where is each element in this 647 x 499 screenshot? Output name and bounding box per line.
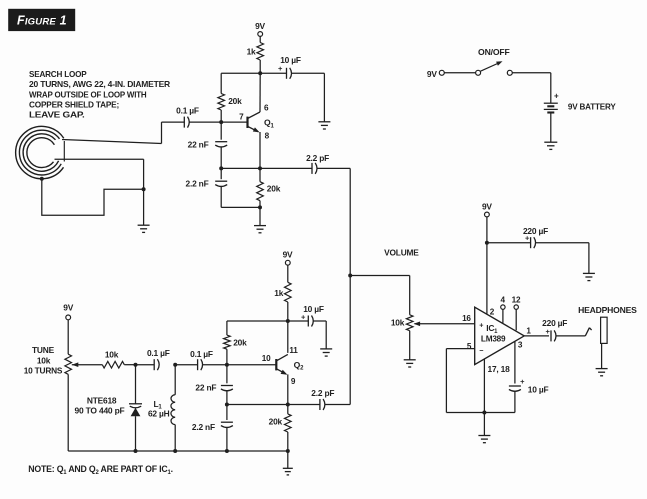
ground osc2 bbox=[283, 468, 293, 475]
svg-text:6: 6 bbox=[264, 104, 269, 113]
svg-text:VOLUME: VOLUME bbox=[384, 248, 419, 258]
svg-text:11: 11 bbox=[289, 346, 298, 355]
wire to ground osc1 bbox=[259, 207, 261, 225]
svg-text:9V: 9V bbox=[482, 201, 492, 211]
pin 12 terminal bbox=[512, 295, 521, 330]
wire shield junction up bbox=[143, 159, 145, 189]
capacitor 10uF osc1 bbox=[278, 55, 301, 79]
search loop coil L (winding rings) bbox=[16, 126, 65, 178]
wire shield junction down bbox=[143, 189, 145, 225]
capacitor 0.1uF second osc2 bbox=[190, 349, 213, 370]
capacitor 22nF osc1 bbox=[188, 122, 228, 168]
resistor 20k base osc1 bbox=[218, 73, 242, 122]
headphone element bbox=[578, 305, 637, 344]
ground 10uF osc2 bbox=[320, 349, 332, 356]
wire 9V to pin2 bbox=[486, 243, 488, 315]
wire pin16 input bbox=[415, 314, 475, 324]
resistor 20k base osc2 bbox=[224, 335, 248, 365]
potentiometer 10k volume bbox=[391, 315, 420, 360]
node lower row left osc1 bbox=[219, 166, 223, 170]
wire 20k feedback top osc2 bbox=[227, 321, 288, 335]
svg-text:+: + bbox=[554, 92, 559, 101]
svg-text:16: 16 bbox=[462, 314, 471, 323]
svg-text:17, 18: 17, 18 bbox=[488, 364, 511, 374]
svg-text:9: 9 bbox=[291, 377, 296, 386]
svg-text:LEAVE GAP.: LEAVE GAP. bbox=[29, 110, 85, 120]
svg-text:9V BATTERY: 9V BATTERY bbox=[568, 101, 616, 111]
wire 10uF to ground osc1 bbox=[291, 73, 324, 122]
svg-text:5: 5 bbox=[467, 342, 472, 351]
resistor 10k tune bbox=[102, 349, 135, 368]
resistor 20k emitter osc2 bbox=[269, 405, 291, 452]
svg-text:0.1 µF: 0.1 µF bbox=[147, 348, 170, 358]
node rail L1 bbox=[173, 449, 177, 453]
svg-text:2.2 nF: 2.2 nF bbox=[192, 422, 215, 432]
label VOLUME bbox=[384, 248, 419, 258]
svg-text:20k: 20k bbox=[228, 96, 242, 106]
node feedback ground junction bbox=[482, 411, 486, 415]
svg-text:2.2 pF: 2.2 pF bbox=[306, 153, 329, 163]
svg-text:3: 3 bbox=[518, 341, 523, 350]
search loop annotation text bbox=[29, 69, 170, 120]
wire Q1 collector bbox=[259, 73, 261, 112]
svg-text:HEADPHONES: HEADPHONES bbox=[578, 305, 637, 315]
node amp supply junction bbox=[485, 241, 489, 245]
wire bottom rail osc1 bbox=[221, 206, 260, 208]
svg-text:10k: 10k bbox=[391, 318, 405, 328]
wire pins 17 18 bbox=[484, 359, 510, 413]
wire Q2 collector bbox=[287, 321, 289, 353]
wire pin5 feedback loop bbox=[446, 349, 515, 413]
svg-text:9V: 9V bbox=[255, 21, 265, 31]
svg-text:20k: 20k bbox=[267, 184, 281, 194]
pin 4 terminal bbox=[501, 296, 506, 323]
wire battery to ground bbox=[550, 113, 552, 143]
node collector rail junction osc1 bbox=[258, 71, 262, 75]
svg-text:0.1 µF: 0.1 µF bbox=[190, 349, 213, 359]
node volume junction bbox=[348, 274, 352, 278]
wire varactor node bbox=[136, 364, 155, 366]
wire loop ground return bbox=[42, 179, 144, 216]
wire bottom rail osc2 bbox=[68, 450, 288, 452]
wire amp ground bbox=[483, 413, 485, 436]
wire base row osc2 bbox=[202, 364, 276, 366]
inductor L1 62uH bbox=[148, 365, 175, 451]
svg-text:TUNE: TUNE bbox=[32, 345, 55, 355]
wire lower row osc1 bbox=[221, 167, 312, 169]
resistor 1k osc1 bbox=[247, 43, 264, 74]
svg-text:9V: 9V bbox=[283, 250, 293, 260]
node L1 junction bbox=[173, 363, 177, 367]
resistor 1k osc2 bbox=[274, 282, 291, 321]
svg-text:4: 4 bbox=[501, 296, 506, 305]
terminal 9V supply osc1 bbox=[255, 21, 265, 43]
svg-text:FIGURE 1: FIGURE 1 bbox=[17, 14, 67, 28]
node collector junction osc2 bbox=[286, 319, 290, 323]
wire Q1 emitter bbox=[259, 132, 261, 168]
node emitter junction osc2 bbox=[286, 403, 290, 407]
svg-text:9V: 9V bbox=[427, 69, 437, 79]
wire switch to battery bbox=[512, 73, 551, 104]
svg-text:10 µF: 10 µF bbox=[303, 304, 324, 314]
wire pin5 input bbox=[446, 342, 474, 351]
varactor diode NTE618 bbox=[75, 365, 143, 451]
svg-text:LM389: LM389 bbox=[481, 334, 506, 343]
svg-text:10: 10 bbox=[262, 354, 271, 363]
terminal 9V switch bbox=[427, 69, 444, 79]
svg-text:20k: 20k bbox=[233, 338, 247, 348]
capacitor 0.1uF first osc2 bbox=[147, 348, 170, 370]
wire collector rail osc1 bbox=[221, 72, 286, 74]
svg-text:10 µF: 10 µF bbox=[528, 385, 549, 395]
node base junction osc2 bbox=[225, 363, 229, 367]
capacitor 2.2pF osc2 bbox=[288, 388, 350, 410]
figure label box bbox=[8, 9, 75, 31]
wire rail to ground osc2 bbox=[287, 451, 289, 468]
capacitor 0.1uF osc1 bbox=[176, 105, 199, 127]
node bottom rail osc1 bbox=[258, 205, 262, 209]
node varactor junction bbox=[134, 363, 138, 367]
svg-text:10k: 10k bbox=[105, 349, 119, 359]
capacitor 22nF osc2 bbox=[195, 365, 232, 405]
wire headphone to ground bbox=[601, 343, 603, 368]
svg-text:−: − bbox=[479, 346, 483, 355]
svg-text:+: + bbox=[479, 321, 483, 330]
wire 2.2pF to volume line bbox=[317, 167, 351, 169]
svg-text:20 TURNS, AWG 22, 4-IN. DIAMET: 20 TURNS, AWG 22, 4-IN. DIAMETER bbox=[29, 79, 170, 89]
svg-text:WRAP OUTSIDE OF LOOP WITH: WRAP OUTSIDE OF LOOP WITH bbox=[29, 89, 147, 99]
capacitor 220uF output bbox=[542, 318, 567, 342]
ground osc1 right bbox=[318, 122, 330, 129]
jack plug tip bbox=[585, 328, 591, 336]
svg-text:7: 7 bbox=[239, 113, 244, 122]
capacitor 220uF supply bbox=[487, 226, 589, 274]
potentiometer TUNE 10k bbox=[24, 302, 74, 451]
capacitor 10uF pin3 bbox=[509, 377, 549, 412]
node emitter row left osc2 bbox=[225, 403, 229, 407]
svg-text:1k: 1k bbox=[274, 288, 283, 298]
svg-text:2.2 nF: 2.2 nF bbox=[185, 178, 208, 188]
wire Q2 emitter bbox=[287, 374, 289, 404]
node lower row emitter osc1 bbox=[258, 166, 262, 170]
wire between caps osc2 bbox=[175, 364, 197, 366]
svg-text:12: 12 bbox=[512, 295, 521, 304]
wire base osc1 bbox=[189, 121, 248, 123]
svg-text:20k: 20k bbox=[269, 416, 283, 426]
resistor 20k emitter osc1 bbox=[257, 168, 281, 207]
wire emitter row osc2 bbox=[227, 404, 288, 406]
svg-text:ON/OFF: ON/OFF bbox=[478, 47, 510, 57]
node base junction osc1 bbox=[219, 120, 223, 124]
terminal 9V amp bbox=[482, 201, 492, 242]
wire loop upper lead to 0.1uF bbox=[62, 122, 184, 143]
capacitor 2.2nF osc1 bbox=[185, 168, 227, 207]
capacitor 2.2pF osc1 bbox=[306, 153, 329, 174]
svg-text:0.1 µF: 0.1 µF bbox=[176, 105, 199, 115]
svg-text:COPPER SHIELD TAPE;: COPPER SHIELD TAPE; bbox=[29, 99, 119, 109]
node rail 2.2nF bbox=[225, 449, 229, 453]
svg-text:10k: 10k bbox=[37, 355, 51, 365]
ground battery bbox=[544, 142, 557, 149]
wire volume tap bbox=[350, 276, 410, 315]
svg-text:10 TURNS: 10 TURNS bbox=[24, 365, 63, 375]
wire loop lower lead bbox=[55, 158, 144, 160]
battery 9V bbox=[544, 92, 616, 113]
node loop bottom terminal bbox=[40, 177, 44, 181]
note text bbox=[28, 464, 173, 476]
node rail varactor bbox=[134, 449, 138, 453]
ground osc1 bottom bbox=[254, 226, 266, 233]
svg-text:1: 1 bbox=[526, 326, 531, 335]
node rail emitter bbox=[286, 449, 290, 453]
capacitor 10uF osc2 bbox=[288, 304, 326, 349]
wire switch left bbox=[444, 72, 475, 74]
ground volume pot bbox=[404, 360, 416, 367]
transistor Q2 bbox=[262, 346, 304, 386]
transistor Q1 bbox=[239, 104, 274, 141]
ground loop shield bbox=[138, 225, 150, 232]
wire pin3 down bbox=[515, 341, 523, 384]
svg-text:2.2 pF: 2.2 pF bbox=[311, 388, 334, 398]
svg-text:62 µH: 62 µH bbox=[148, 408, 170, 418]
wire wiper to 10k bbox=[72, 362, 103, 367]
wire output to jack bbox=[556, 335, 586, 337]
wire volume vertical line bbox=[349, 168, 351, 404]
svg-text:10 µF: 10 µF bbox=[280, 55, 301, 65]
svg-text:SEARCH LOOP: SEARCH LOOP bbox=[29, 69, 87, 79]
ground amp bbox=[478, 436, 490, 443]
svg-text:90 TO 440 pF: 90 TO 440 pF bbox=[75, 405, 125, 415]
node loop shield junction bbox=[142, 187, 146, 191]
wire output pin1 bbox=[524, 326, 549, 336]
svg-text:22 nF: 22 nF bbox=[188, 139, 209, 149]
switch ON/OFF bbox=[476, 47, 513, 75]
ground 220uF supply bbox=[583, 273, 595, 280]
ground headphones bbox=[596, 369, 608, 376]
svg-text:NTE618: NTE618 bbox=[87, 395, 117, 405]
svg-text:8: 8 bbox=[265, 131, 270, 140]
svg-text:22 nF: 22 nF bbox=[195, 383, 216, 393]
terminal 9V osc2 bbox=[283, 250, 293, 283]
op-amp U1 LM389 bbox=[475, 307, 525, 364]
capacitor 2.2nF osc2 bbox=[192, 405, 233, 452]
svg-text:9V: 9V bbox=[63, 302, 73, 312]
svg-text:1k: 1k bbox=[247, 47, 256, 57]
svg-text:2: 2 bbox=[490, 308, 495, 317]
